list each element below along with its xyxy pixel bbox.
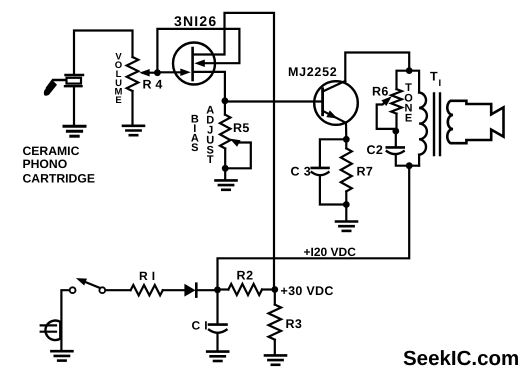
wire cartridge top feed to R4 [74, 31, 133, 75]
wire R5 bottom to lower node [224, 149, 226, 169]
svg-text:C 3: C 3 [291, 165, 312, 179]
node A: R4 wiper junction [154, 69, 161, 76]
wire bottom node to ground [345, 205, 347, 220]
wire R1 to diode [163, 289, 184, 291]
resistor R3 [269, 305, 282, 340]
wire R4 to ground [131, 91, 133, 125]
speaker with secondary voice-coil winding [447, 101, 503, 143]
node: C3/R7 bottom [343, 201, 350, 208]
svg-text:R7: R7 [357, 165, 374, 179]
T1 core lines [434, 94, 440, 156]
transistor Q1 3N126 circle [173, 43, 215, 85]
wire node to C2 [395, 131, 397, 146]
svg-text:C2: C2 [367, 143, 384, 157]
diode CR1 [184, 284, 196, 297]
svg-text:S: S [191, 142, 198, 154]
svg-text:CERAMIC: CERAMIC [23, 144, 80, 158]
wire R7 to bottom node [345, 191, 347, 204]
label T1 [430, 70, 441, 90]
svg-text:+I20 VDC: +I20 VDC [304, 245, 357, 259]
node: emitter / C3 / R7 [343, 136, 350, 143]
ground below R7/C3 [336, 222, 357, 231]
svg-text:R I: R I [139, 269, 156, 283]
potentiometer R5 body [220, 115, 230, 149]
node: tone block top [406, 67, 413, 74]
wire C3 to bottom rail [320, 176, 346, 205]
wire emitter node to R7 [345, 139, 347, 148]
wire source down to bias node [193, 72, 225, 101]
capacitor C2 [387, 147, 404, 154]
svg-text:R5: R5 [233, 121, 250, 135]
gate 1 arrowhead into channel bar [180, 69, 191, 77]
svg-text:SeekIC.com: SeekIC.com [403, 347, 519, 370]
node: source / R5 / base junction [222, 97, 229, 104]
AC plug [41, 321, 61, 341]
svg-text:R3: R3 [286, 317, 303, 331]
wire primary bottom [418, 155, 420, 166]
svg-text:E: E [115, 95, 121, 106]
wire emitter node to C3 [320, 139, 346, 166]
ground below R4 [123, 126, 144, 135]
resistor R7 [341, 148, 352, 191]
wire tone block bottom to +120 rail [218, 166, 410, 290]
Q2 base bar [321, 89, 324, 115]
ground below cartridge [64, 126, 85, 136]
label BIAS (vertical) [191, 113, 199, 154]
wire R6 bottom to node [395, 114, 397, 131]
wire R5 node to ground [224, 168, 226, 179]
ceramic phono cartridge element [65, 75, 83, 86]
wire C2 to block bottom bar [396, 155, 419, 166]
label CERAMIC PHONO CARTRIDGE [23, 144, 95, 186]
node: tone block bottom [406, 162, 413, 169]
label ADJUST (vertical) [206, 105, 214, 167]
3N126 channel bar [191, 48, 194, 80]
wire +30 node to R3 [274, 290, 276, 305]
wire gate loop (node A up over to gate 2) [157, 29, 239, 73]
wire tone block top bar [397, 71, 420, 93]
node: R6 / C2 junction [392, 128, 399, 135]
R6 wiper arrow and return to bottom [377, 96, 394, 129]
svg-text:3NI26: 3NI26 [174, 13, 217, 29]
svg-text:R2: R2 [237, 269, 254, 283]
wire diode to node [198, 289, 218, 291]
svg-text:MJ2252: MJ2252 [288, 65, 337, 79]
transistor Q2 MJ2252 circle [314, 81, 358, 125]
node: diode / C1 / R2 / +120 feed [214, 286, 221, 293]
wire plug to switch and ground [61, 290, 69, 349]
wire R2 to +30 node [262, 288, 275, 290]
svg-text:R6: R6 [372, 84, 389, 98]
wire node to R2 [218, 288, 229, 290]
wire drain to +30 V loop (top) [193, 13, 274, 290]
R4 wiper arrow [139, 69, 157, 77]
svg-text:T: T [207, 154, 214, 166]
wire source node to base of Q2 [225, 100, 323, 102]
label VOLUME (vertical) [115, 52, 123, 107]
svg-text:C I: C I [192, 319, 209, 333]
wire node to C1 [216, 290, 218, 323]
potentiometer R6 body [391, 89, 402, 114]
wire emitter down [345, 123, 347, 140]
label TONE (vertical) [404, 82, 413, 125]
gate 2 arrowhead into channel bar [194, 60, 205, 68]
ground below R3 [265, 355, 286, 364]
svg-text:E: E [405, 113, 412, 125]
svg-text:R 4: R 4 [143, 78, 163, 92]
wire R3 to ground [274, 340, 276, 354]
svg-text:PHONO: PHONO [23, 157, 68, 171]
svg-text:T: T [430, 70, 438, 84]
resistor R2 [228, 284, 262, 295]
node: +30 VDC [271, 286, 278, 293]
Q2 collector lead [323, 81, 346, 92]
R5 wiper arrow and return to bottom [225, 139, 251, 169]
switch S1 [70, 278, 106, 293]
stylus arm and needle of cartridge [45, 80, 66, 95]
ground below C1 [207, 352, 228, 361]
potentiometer R4 body [127, 57, 139, 91]
transformer T1 primary winding [419, 93, 427, 155]
capacitor C3 [312, 168, 329, 175]
ground below plug [51, 351, 72, 360]
wire node to R5 [224, 101, 226, 115]
svg-text:I: I [439, 78, 442, 89]
wire switch to R1 [106, 289, 131, 291]
svg-text:CARTRIDGE: CARTRIDGE [23, 171, 95, 185]
wire cartridge to ground [73, 86, 75, 125]
svg-text:+30 VDC: +30 VDC [281, 284, 334, 298]
wire collector up and over to tone block [345, 53, 409, 82]
wire C1 to ground [216, 334, 218, 350]
node: R5 bottom junction [222, 165, 229, 172]
capacitor C1 [209, 325, 227, 333]
ground below R5 [216, 180, 237, 189]
Q2 emitter lead with arrow [323, 110, 346, 122]
resistor R1 [131, 285, 163, 295]
wire node A to gate 1 [157, 71, 185, 73]
